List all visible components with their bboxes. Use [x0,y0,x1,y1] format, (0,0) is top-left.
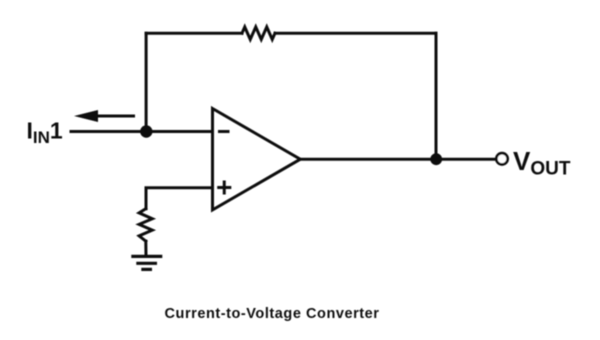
svg-text:IIN1: IIN1 [27,118,63,148]
wire: top feedback right segment [275,32,436,35]
wire: top feedback left segment [146,32,242,35]
op-amp non-inverting input plus sign [217,181,231,195]
ground [131,256,162,269]
resistor R1 (feedback) [242,27,275,39]
wire: non-inverting input [146,188,213,209]
node: inverting input junction dot [140,125,152,137]
resistor R2 (to ground) [139,209,152,241]
op-amp inverting input minus sign [218,130,230,133]
wire: right feedback vertical [435,33,438,159]
wire: op-amp output [300,158,494,161]
svg-text:VOUT: VOUT [513,146,571,180]
svg-text:Current-to-Voltage Converter: Current-to-Voltage Converter [165,306,380,322]
terminal: VOUT open circle [496,153,507,164]
wire: input to inverting input [71,130,213,133]
wire: left feedback vertical [145,33,148,131]
op-amp U1 [213,109,301,210]
arrow: input current direction [95,115,135,118]
wire: resistor R2 to ground [144,241,147,256]
node: output junction dot [430,153,442,165]
